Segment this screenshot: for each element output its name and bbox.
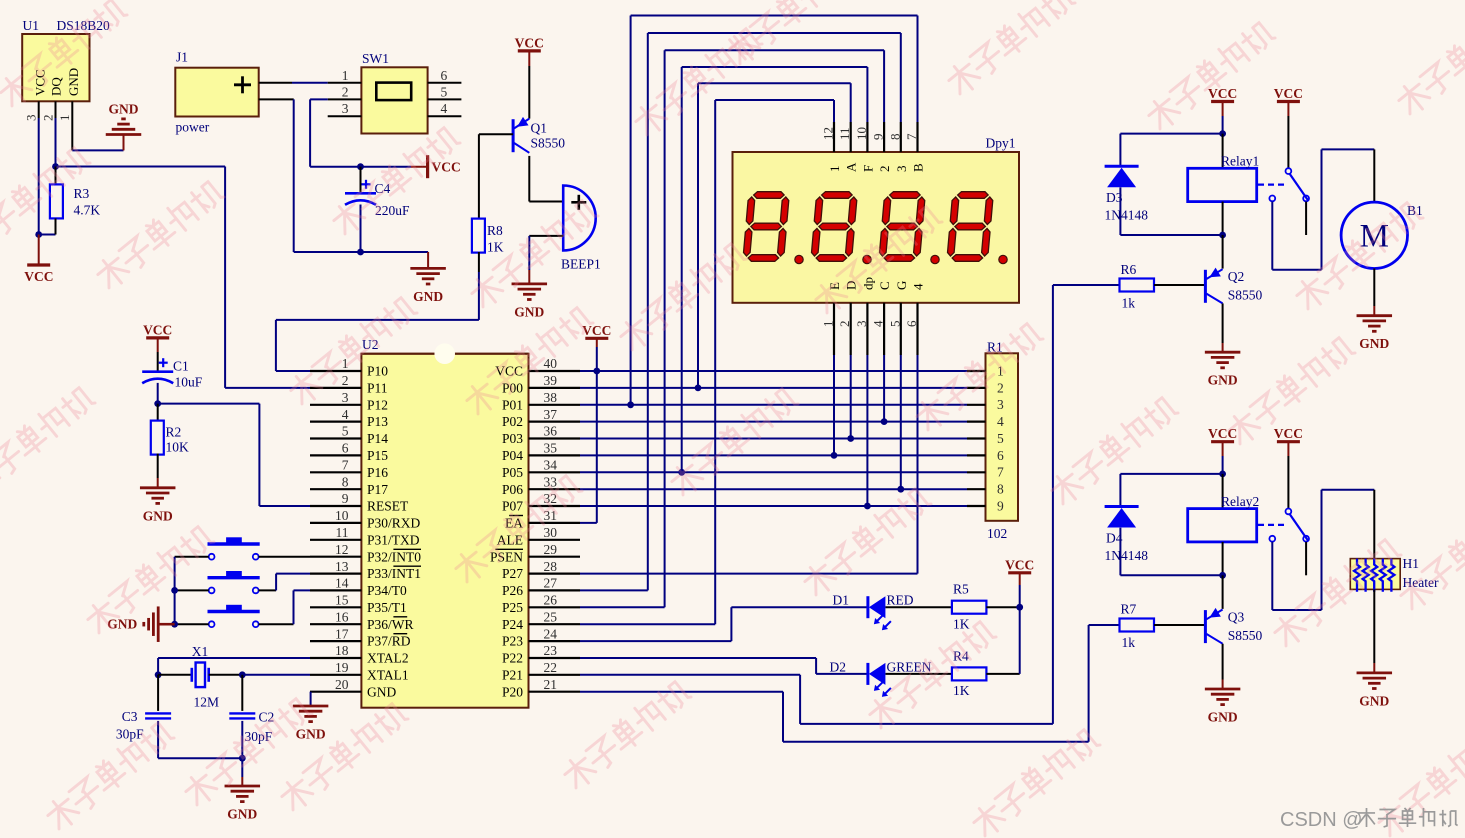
wire button S3 to P34 [259,590,310,624]
relay contact dashed link [1258,184,1286,186]
relay1 switch contact [1269,168,1309,235]
power VCC right of C4 [411,155,461,178]
push button S1 [208,537,260,559]
U2 pin 14 P34/T0 [310,576,407,598]
svg-text:35: 35 [544,441,558,456]
U2 pin 4 P13 [310,407,388,429]
svg-text:2: 2 [342,373,349,388]
wire J1 pin1 to SW1 pin1 [259,82,328,84]
svg-text:VCC: VCC [1274,426,1303,441]
svg-text:VCC: VCC [1208,86,1237,101]
svg-text:1K: 1K [953,617,970,632]
svg-text:3: 3 [342,101,349,116]
ground below U2 pin20 [293,706,329,742]
svg-text:22: 22 [544,660,558,675]
svg-text:12M: 12M [194,695,220,710]
wire SW1 pin2 to VCC node [310,99,411,170]
svg-text:3: 3 [854,321,869,328]
U2 pin 33 P06 [502,474,580,496]
U2 pin 16 P36/WR [310,609,414,631]
wire button S2 to P33 [259,574,310,591]
display top pin 8 3 [887,122,909,172]
svg-text:P03: P03 [502,431,523,446]
svg-text:F: F [860,165,875,172]
svg-text:23: 23 [544,643,558,658]
svg-text:Q3: Q3 [1228,609,1245,624]
U2 pin 22 P21 [502,660,580,682]
svg-text:R2: R2 [166,425,182,440]
power VCC above relay2 contact [1274,426,1303,508]
svg-text:C3: C3 [122,709,138,724]
U1 pin 3 [24,101,39,121]
display digit 4 decimal point [999,255,1007,263]
diode D4 1N4148 [1105,474,1223,575]
svg-text:SW1: SW1 [362,51,389,66]
display top pin 11 A [837,122,859,172]
resistor R4 1K [886,607,1020,698]
display bottom pin 6 4 [904,283,926,355]
wire ground rail C4 [357,249,428,269]
svg-text:VCC: VCC [1274,86,1303,101]
svg-text:P35/T1: P35/T1 [367,600,407,615]
U2 pin 30 ALE [497,525,580,547]
ground below Q3 [1205,689,1241,725]
ground below R2 [140,488,176,524]
R1 pin 9 [967,498,1004,513]
svg-text:GND: GND [66,68,81,96]
svg-text:10uF: 10uF [175,375,203,390]
svg-text:A: A [844,162,859,172]
R1 pin 7 [967,465,1004,480]
wire P02 bus row [580,418,967,425]
wire display pin6 digit4 to P27 [580,355,918,574]
svg-text:12: 12 [821,127,836,140]
wire P22 to D2 [580,658,868,674]
U2 pin 23 P22 [502,643,580,665]
microcontroller U2 [361,337,528,708]
R1 pin 1 [967,363,1004,378]
svg-text:R7: R7 [1121,602,1137,617]
svg-text:11: 11 [336,525,349,540]
U1 pin 2 [40,101,55,121]
svg-text:P37/RD: P37/RD [367,634,411,649]
svg-text:C1: C1 [173,359,189,374]
svg-text:GND: GND [227,807,257,822]
U2 pin 3 P12 [310,390,388,412]
display digit 3 segments [879,192,926,262]
svg-text:R6: R6 [1121,262,1137,277]
svg-text:RESET: RESET [367,499,409,514]
SW1 pin 5 [428,84,462,99]
display bottom pin 4 C [871,281,893,355]
svg-text:GND: GND [367,684,396,699]
svg-text:19: 19 [335,660,349,675]
svg-text:PSEN: PSEN [490,549,523,564]
svg-text:VCC: VCC [143,322,172,337]
wire display pin2 D to P03 [850,355,852,439]
svg-text:C: C [877,281,892,290]
U2 pin 35 P04 [502,441,580,463]
wire display pin5 G to P06 [900,355,902,489]
svg-text:11: 11 [837,127,852,140]
svg-text:Q1: Q1 [531,121,548,136]
ground below Q2 [1205,352,1241,388]
power VCC above Relay1 [1208,86,1237,137]
svg-text:P15: P15 [367,448,388,463]
wire J1 pin2 to ground rail [259,99,361,252]
svg-text:P10: P10 [367,364,388,379]
U2 pin 5 P14 [310,424,388,446]
svg-text:R3: R3 [74,186,90,201]
wire P26 to display pin8 digit3 [580,33,901,590]
U2 pin 27 P26 [502,576,580,598]
svg-text:P04: P04 [502,448,523,463]
R1 pin 4 [967,414,1004,429]
wire crystal caps to ground [158,755,246,786]
wire Q1 base [479,134,513,218]
svg-text:5: 5 [342,424,349,439]
svg-text:GND: GND [1208,373,1238,388]
ground left of buttons [107,606,158,642]
connector J1 power [175,50,258,135]
svg-text:R5: R5 [953,582,969,597]
svg-text:GND: GND [143,508,173,523]
display digit 1 segments [743,192,790,262]
svg-text:VCC: VCC [582,323,611,338]
U2 pin 20 GND [310,677,396,699]
wire reset node to RESET pin [154,400,310,506]
svg-text:P06: P06 [502,482,523,497]
svg-text:P24: P24 [502,617,523,632]
svg-text:DQ: DQ [48,77,63,96]
wire P05 to display pin10 F [682,67,868,472]
svg-text:Relay2: Relay2 [1221,494,1259,509]
U2 pin 12 P32/INT0 [310,542,421,564]
svg-text:P16: P16 [367,465,388,480]
svg-text:36: 36 [544,424,558,439]
svg-text:24: 24 [544,626,558,641]
switch SW1 [361,51,427,134]
R1 pin 6 [967,448,1004,463]
svg-text:GND: GND [1208,710,1238,725]
U2 pin 18 XTAL2 [310,643,409,665]
svg-text:30: 30 [544,525,558,540]
svg-text:R8: R8 [487,223,503,238]
capacitor C4 220uF [345,167,410,252]
svg-text:6: 6 [441,68,448,83]
svg-text:VCC: VCC [1005,557,1034,572]
svg-text:D1: D1 [833,593,850,608]
transistor Q3 S8550 [1154,575,1263,689]
svg-text:7: 7 [997,465,1004,480]
svg-text:P25: P25 [502,600,523,615]
svg-text:S8550: S8550 [531,136,566,151]
display top pin 7 B [904,122,926,172]
resistor R3 4.7K [50,167,100,235]
display digit 2 decimal point [863,255,871,263]
display bottom pin 5 G [887,281,909,355]
wire VCC row to R1 pin1 [580,368,967,375]
svg-text:S8550: S8550 [1228,628,1263,643]
U2 pin 36 P03 [502,424,580,446]
svg-text:10K: 10K [166,440,190,455]
svg-text:9: 9 [997,498,1004,513]
svg-text:4: 4 [342,407,349,422]
resistor R5 1K [886,582,1020,632]
power VCC above Relay2 [1208,426,1237,477]
svg-text:4: 4 [911,283,926,290]
svg-text:1k: 1k [1122,296,1136,311]
svg-text:1: 1 [57,115,72,122]
svg-text:7: 7 [342,458,349,473]
svg-text:P05: P05 [502,465,523,480]
power VCC above C1 [143,322,172,352]
ground below heater [1357,673,1393,709]
U2 pin 6 P15 [310,441,388,463]
wire motor to ground [1373,269,1375,316]
svg-text:VCC: VCC [515,35,544,50]
svg-text:10: 10 [854,127,869,140]
svg-text:39: 39 [544,373,558,388]
svg-text:7: 7 [904,133,919,140]
svg-text:Dpy1: Dpy1 [986,136,1016,151]
wire relay2 contact to heater [1272,490,1374,610]
wire P04 bus row [580,452,967,459]
display bottom pin 2 D [837,281,859,355]
U2 pin 39 P00 [502,373,580,395]
power VCC above Q1 [515,35,544,66]
wire U1 pin2 DQ net [52,118,310,388]
svg-text:P20: P20 [502,684,523,699]
wire P01 bus row [580,401,967,408]
wire XTAL2 net [155,658,310,678]
relay2 contact dashed link [1258,524,1286,526]
svg-text:4: 4 [441,101,448,116]
svg-text:4: 4 [997,414,1004,429]
wire P03 bus row [580,435,967,442]
svg-text:6: 6 [342,441,349,456]
SW1 pin 4 [428,101,462,116]
svg-text:29: 29 [544,542,558,557]
svg-text:P36/WR: P36/WR [367,617,414,632]
svg-text:RED: RED [887,593,914,608]
wire buttons common to ground [160,557,209,628]
svg-text:5: 5 [997,431,1004,446]
svg-text:2: 2 [40,115,55,122]
svg-text:9: 9 [342,491,349,506]
U2 pin 32 P07 [502,491,580,513]
capacitor C2 30pF [229,675,274,758]
svg-text:3: 3 [997,397,1004,412]
relay Relay1 [1188,134,1260,239]
svg-text:P14: P14 [367,431,388,446]
U2 pin 26 P25 [502,593,580,615]
svg-text:B: B [911,163,926,172]
svg-text:8: 8 [997,482,1004,497]
wire P01 to display pin7 B [631,16,918,405]
svg-text:38: 38 [544,390,558,405]
wire P07 bus row [580,503,967,510]
svg-text:BEEP1: BEEP1 [561,257,601,272]
ground below motor [1357,316,1393,352]
svg-text:CSDN @: CSDN @ [1280,809,1363,831]
ground below crystal caps [225,786,260,822]
U2 pin 1 P10 [310,356,388,378]
svg-text:P27: P27 [502,566,523,581]
svg-text:13: 13 [335,559,349,574]
svg-text:P33/INT1: P33/INT1 [367,566,421,581]
svg-text:4: 4 [871,320,886,327]
wire P20 to R7 [580,625,1120,742]
U2 pin 10 P30/RXD [310,508,421,530]
push button S3 [208,605,260,627]
svg-text:D4: D4 [1106,531,1123,546]
display digit 3 decimal point [931,255,939,263]
svg-text:XTAL2: XTAL2 [367,651,409,666]
U2 pin 29 PSEN [490,542,580,564]
svg-text:P34/T0: P34/T0 [367,583,407,598]
U2 pin 34 P05 [502,458,580,480]
wire R8 to P10 [276,252,479,371]
svg-text:GND: GND [296,727,326,742]
transistor Q1 S8550 [513,66,565,153]
power VCC below U1 [24,235,53,285]
U1 pin 1 [57,101,72,121]
svg-text:3: 3 [894,166,909,173]
svg-text:VCC: VCC [432,160,461,175]
svg-text:40: 40 [544,356,558,371]
push button S2 [208,571,260,593]
svg-text:P12: P12 [367,397,388,412]
svg-text:1N4148: 1N4148 [1105,208,1149,223]
svg-text:GND: GND [514,304,544,319]
display digit 4 segments [947,192,994,262]
buzzer BEEP1 [561,186,601,272]
ground below C4 [410,268,446,304]
wire display pin3 dp to P07 [866,355,868,506]
svg-text:U1: U1 [23,18,40,33]
ground top-left (U1) [106,102,142,135]
wire U1 pin1 to ground [72,118,123,150]
display bottom pin 3 dp [854,277,876,355]
svg-text:21: 21 [544,677,558,692]
wire button S1 to P32 [259,556,310,558]
svg-text:18: 18 [335,643,349,658]
svg-text:5: 5 [441,84,448,99]
U2 pin 24 P23 [502,626,580,648]
wire P24 to display pin12 digit1 [580,100,834,624]
svg-text:P23: P23 [502,634,523,649]
svg-text:P07: P07 [502,499,523,514]
wire relay1 contact to motor [1272,149,1374,269]
U2 pin 9 RESET [310,491,409,513]
svg-text:2: 2 [837,321,852,328]
svg-text:P02: P02 [502,414,523,429]
svg-text:Relay1: Relay1 [1221,154,1259,169]
svg-text:2: 2 [997,380,1004,395]
svg-text:P32/INT0: P32/INT0 [367,549,421,564]
display Dpy1 [733,136,1020,303]
svg-text:34: 34 [544,458,558,473]
U2 pin 8 P17 [310,474,388,496]
svg-text:1K: 1K [487,240,504,255]
capacitor C3 30pF [116,675,171,758]
svg-text:15: 15 [335,593,349,608]
relay Relay2 [1188,474,1260,579]
resistor R7 1k [1120,602,1155,651]
diode D3 1N4148 [1105,134,1223,235]
svg-text:D2: D2 [830,660,847,675]
svg-text:P30/RXD: P30/RXD [367,516,421,531]
U2 pin 38 P01 [502,390,580,412]
wire heater to ground [1373,589,1375,673]
wire P25 to display pin9 digit2 [580,50,884,607]
svg-text:30pF: 30pF [116,727,144,742]
svg-text:17: 17 [335,626,349,641]
svg-text:27: 27 [544,576,558,591]
R1 pin 2 [967,380,1004,395]
sensor U1 DS18B20 [22,18,110,101]
svg-text:25: 25 [544,609,558,624]
SW1 pin 1 [328,68,362,83]
LED D1 RED [833,593,914,631]
svg-text:2: 2 [877,166,892,173]
resistor R8 1K [472,219,504,255]
transistor Q2 S8550 [1154,235,1263,352]
svg-text:16: 16 [335,609,349,624]
SW1 pin 3 [328,101,362,116]
U2 pin 17 P37/RD [310,626,411,648]
svg-text:GND: GND [413,289,443,304]
svg-text:D3: D3 [1106,190,1123,205]
U2 pin 31 EA [505,508,580,530]
display bottom pin 1 E [821,282,843,355]
motor B1 [1341,202,1423,268]
display top pin 9 2 [871,122,893,172]
svg-text:P22: P22 [502,651,523,666]
relay2 switch contact [1269,509,1309,576]
svg-text:1: 1 [342,68,349,83]
svg-text:P26: P26 [502,583,523,598]
svg-text:3: 3 [342,390,349,405]
svg-text:14: 14 [335,576,349,591]
resistor R6 1k [1120,262,1155,311]
wire Q1 collector to beeper [529,156,563,202]
SW1 pin 2 [328,84,362,99]
svg-text:6: 6 [997,448,1004,463]
svg-text:J1: J1 [176,50,188,65]
svg-text:P13: P13 [367,414,388,429]
svg-text:28: 28 [544,559,558,574]
wire display pin1 E to P04 [833,355,835,455]
crystal X1 12M [192,644,219,710]
svg-text:102: 102 [987,526,1007,541]
power VCC above R5 [1005,557,1034,610]
svg-text:G: G [894,281,909,290]
svg-text:10: 10 [335,508,349,523]
wire EA to VCC [580,371,597,523]
svg-text:2: 2 [342,84,349,99]
svg-text:1: 1 [827,166,842,173]
svg-text:1k: 1k [1122,635,1136,650]
svg-text:Q2: Q2 [1228,269,1245,284]
svg-text:XTAL1: XTAL1 [367,667,409,682]
svg-text:P11: P11 [367,381,388,396]
LED D2 GREEN [830,660,932,697]
R1 pin 3 [967,397,1004,412]
svg-text:X1: X1 [192,644,209,659]
wire display pin4 C to P02 [883,355,885,422]
